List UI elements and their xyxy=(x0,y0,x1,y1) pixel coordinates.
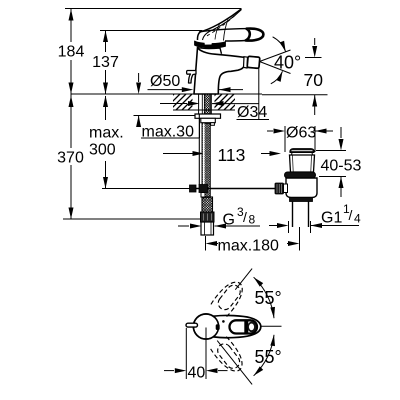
top view escutcheon circle outline over arm xyxy=(193,314,218,339)
dimension line 137/max300 vertical with arrows xyxy=(105,31,107,52)
hose crimp fitting xyxy=(202,197,213,212)
svg-text:Ø50: Ø50 xyxy=(150,73,180,90)
hose connector thread G3/8 xyxy=(201,222,214,235)
pop-up body xyxy=(286,178,317,198)
faucet body top edge xyxy=(198,48,222,54)
dimension Ø50 leader and arrows xyxy=(148,89,184,91)
top view lever arm xyxy=(214,315,261,337)
threaded shank through deck xyxy=(199,94,212,114)
dimension Ø34 leader and arrows xyxy=(160,103,187,105)
dimension line 184/370 vertical with arrows xyxy=(70,9,72,42)
svg-text:184: 184 xyxy=(58,44,85,61)
pop-up flange O-ring xyxy=(285,172,316,178)
rod clamp block xyxy=(190,185,197,192)
wire top view horizontal centerline xyxy=(261,325,282,327)
dimension max.30 arrows xyxy=(138,73,140,82)
pop-up plug dome xyxy=(290,149,314,153)
mounting nut xyxy=(201,118,216,122)
faucet lever handle xyxy=(197,9,241,40)
top view lever divider xyxy=(244,321,248,332)
spout aerator xyxy=(244,56,260,68)
dimension G3/8 arrows and shelf xyxy=(178,225,189,227)
wire 40-degree spray fan lines xyxy=(260,50,291,62)
top view lever inner pill xyxy=(230,320,258,333)
svg-text:40°: 40° xyxy=(274,53,301,73)
svg-text:/: / xyxy=(349,207,353,223)
dimension arc lower 55-degree xyxy=(254,335,274,376)
top view lever rotated +55 dashed xyxy=(211,277,249,317)
dimension arc upper 55-degree xyxy=(254,277,274,318)
svg-text:Ø34: Ø34 xyxy=(237,104,267,121)
pop-up rod knob knurled xyxy=(275,183,284,194)
svg-text:370: 370 xyxy=(57,150,84,167)
svg-text:max.: max. xyxy=(89,125,124,142)
pop-up neck xyxy=(290,155,315,172)
svg-text:max.30: max.30 xyxy=(142,124,195,141)
svg-text:Ø63: Ø63 xyxy=(286,125,316,142)
svg-text:300: 300 xyxy=(89,142,116,159)
top view escutcheon circle xyxy=(193,314,218,339)
svg-text:max.180: max.180 xyxy=(218,238,279,255)
svg-text:G: G xyxy=(223,212,235,229)
top view pop-up pin xyxy=(186,323,198,327)
wire mounting-nut reference line (max.30 bottom) xyxy=(134,115,200,117)
hose connector nut xyxy=(201,212,215,222)
wire 55-degree lower axis line xyxy=(217,341,252,385)
faucet body side view xyxy=(194,48,246,95)
dimension 70 with reference lines xyxy=(262,94,328,96)
wire 55-degree upper axis line xyxy=(235,269,252,290)
wire deck/counter top line xyxy=(71,93,262,95)
pop-up rod vertical xyxy=(198,114,200,186)
flexible supply hose xyxy=(202,123,210,197)
svg-text:137: 137 xyxy=(92,54,119,71)
wire pop-up rod reference line xyxy=(102,188,190,190)
wire top reference line (lever tip level) xyxy=(65,8,242,10)
top view lever rotated -55 dashed xyxy=(210,336,248,376)
mounting washer xyxy=(195,114,221,118)
dimension 40-53 with reference lines xyxy=(316,150,346,152)
lever collar xyxy=(195,41,226,48)
top view body markers xyxy=(216,324,220,330)
svg-text:55°: 55° xyxy=(255,288,282,308)
top view lever end cap xyxy=(248,322,257,333)
svg-text:4: 4 xyxy=(354,212,361,226)
dimension 113 arrows xyxy=(163,153,193,155)
pop-up tailpipe xyxy=(293,202,309,228)
pop-up rod knob xyxy=(187,71,196,84)
svg-text:40-53: 40-53 xyxy=(321,158,362,175)
svg-text:G1: G1 xyxy=(321,210,342,227)
dimension 40-degree arc arrows xyxy=(273,37,286,52)
svg-text:/: / xyxy=(243,209,247,225)
dimension Ø63 with extension lines xyxy=(284,126,286,152)
svg-text:113: 113 xyxy=(218,145,246,165)
svg-text:55°: 55° xyxy=(255,347,282,367)
pop-up rod horizontal xyxy=(190,188,276,190)
pop-up side port xyxy=(284,184,288,193)
wire deck underside line xyxy=(173,109,235,111)
pop-up bottom ring xyxy=(290,198,313,202)
dimension G1 1/4 arrows, shelf and extension lines xyxy=(269,225,277,227)
wire max.30 label shelf xyxy=(141,137,200,139)
wire 137 reference line xyxy=(100,30,202,32)
svg-text:70: 70 xyxy=(304,70,324,90)
wire hose-end reference line (370 bottom) xyxy=(63,218,201,220)
svg-text:8: 8 xyxy=(249,213,256,227)
svg-text:40: 40 xyxy=(188,365,206,382)
dimension 40 with extension lines xyxy=(185,328,187,379)
pop-up plug base xyxy=(292,153,313,156)
dimension max.180 with extension lines xyxy=(205,236,207,251)
